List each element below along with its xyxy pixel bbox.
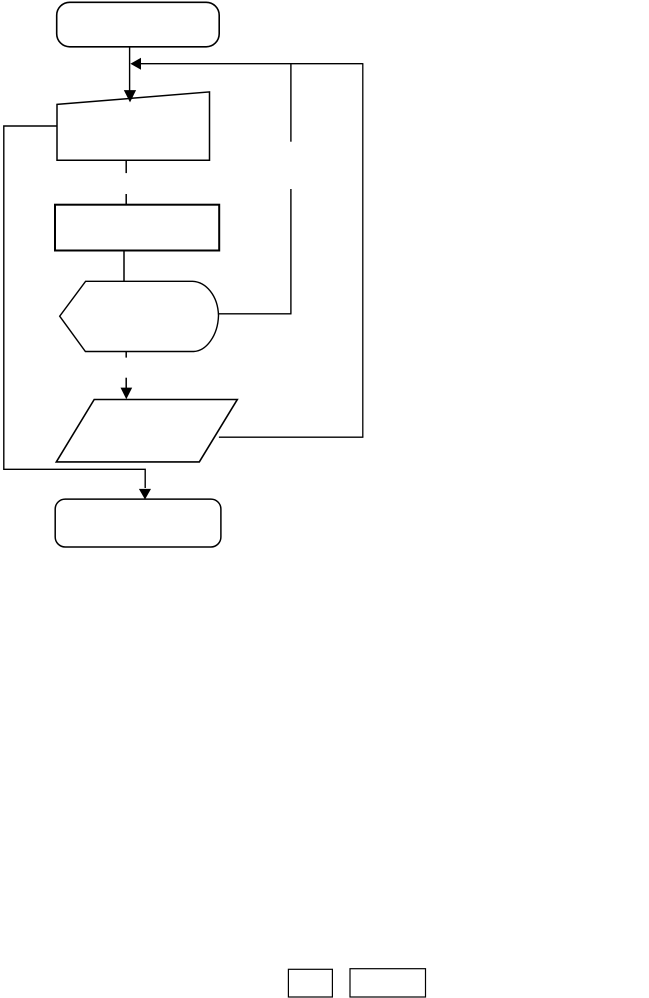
arrowhead from feedback loop (points left) bbox=[130, 58, 141, 70]
arrowhead into parallelogram bbox=[121, 388, 133, 400]
wire: process to display shape bbox=[123, 251, 125, 282]
terminal start (top rounded rectangle) bbox=[57, 2, 220, 47]
small answer box 1 (bottom) bbox=[288, 969, 332, 997]
wire: inner loop vertical upper segment bbox=[290, 63, 292, 142]
dashed wire: manual-input to process (dash 1) bbox=[125, 161, 127, 173]
wire: horizontal from display shape right point bbox=[219, 313, 292, 315]
wire: terminal to manual-input bbox=[129, 47, 131, 91]
process rectangle bbox=[55, 205, 219, 251]
small answer box 2 (bottom) bbox=[350, 969, 426, 997]
wire: right outer loop vertical bbox=[362, 63, 364, 437]
wire: left loop from manual-input down to bottom arrow bbox=[4, 126, 145, 488]
display shape (left point, rounded right) bbox=[60, 281, 219, 351]
wire: feedback horizontal top bbox=[140, 63, 363, 65]
wire: right outer loop bottom horizontal to parallelogram bbox=[219, 436, 364, 438]
arrowhead into bottom terminal bbox=[139, 489, 151, 500]
dashed wire: display to parallelogram (dash 1) bbox=[125, 352, 127, 358]
dashed wire: display to parallelogram (dash 2) bbox=[125, 378, 127, 389]
manual-input shape (slanted top quadrilateral) bbox=[57, 92, 210, 160]
terminal end (bottom rounded rectangle) bbox=[55, 499, 221, 547]
parallelogram (input/output) bbox=[56, 400, 237, 462]
arrowhead into manual-input bbox=[124, 90, 136, 102]
wire: inner loop vertical lower segment bbox=[290, 189, 292, 314]
dashed wire: manual-input to process (dash 2) bbox=[125, 194, 127, 205]
